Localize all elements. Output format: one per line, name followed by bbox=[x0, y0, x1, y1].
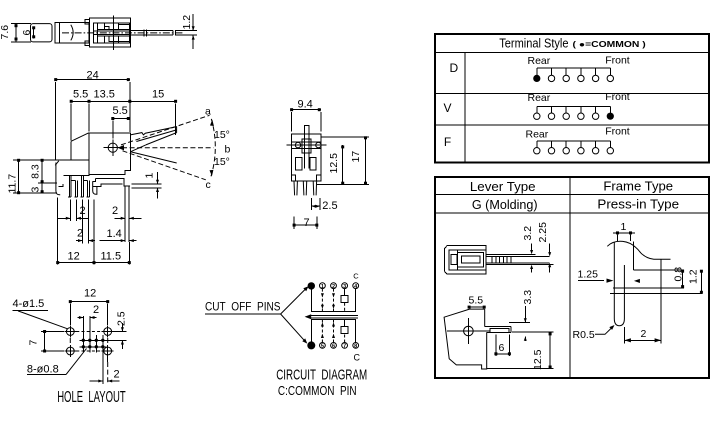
shaft right bbox=[485, 325, 511, 327]
terminal pin 3 bbox=[80, 176, 83, 197]
bottom dim row 3: 12 / 11.5 bbox=[56, 198, 131, 265]
label 8-dia0.8 with leader bbox=[27, 349, 87, 376]
svg-text:7.6: 7.6 bbox=[0, 25, 11, 40]
row separator 1 bbox=[435, 194, 709, 196]
svg-text:a: a bbox=[205, 106, 211, 118]
leader to top cutoff pin bbox=[281, 288, 307, 315]
center blob bbox=[302, 139, 311, 153]
dashed line to b bbox=[122, 147, 214, 149]
pin 6 bbox=[331, 343, 337, 349]
svg-text:V: V bbox=[444, 101, 452, 115]
dimension 8.3 bbox=[30, 159, 58, 183]
body vertical centerline bbox=[112, 15, 114, 50]
dashed travel arc bbox=[211, 119, 216, 177]
front body bbox=[292, 134, 321, 181]
pin 5 bbox=[320, 343, 326, 349]
svg-text:7: 7 bbox=[304, 217, 310, 229]
dimension row 5.5 / 13.5 / 15 bbox=[70, 89, 177, 141]
comb row V bbox=[534, 107, 614, 120]
comb row D bbox=[533, 68, 613, 82]
svg-text:Front: Front bbox=[605, 91, 630, 103]
terminal pin 2 bbox=[74, 180, 77, 196]
switch body (top view) bbox=[89, 18, 130, 47]
dimension 17 bbox=[317, 136, 369, 184]
row separator D/V bbox=[435, 93, 709, 95]
actuator rod (top view) bbox=[131, 30, 174, 32]
bottom dim row 1: 2 / 2 bbox=[58, 200, 141, 222]
svg-text:12.5: 12.5 bbox=[328, 153, 340, 174]
corner hole bottom-right bbox=[102, 345, 114, 362]
svg-text:3: 3 bbox=[30, 187, 42, 193]
svg-text:11.7: 11.7 bbox=[7, 174, 19, 194]
svg-text:17: 17 bbox=[350, 151, 362, 163]
body left tabs bbox=[85, 20, 89, 24]
corner hole bottom-left bbox=[64, 345, 76, 357]
svg-text:2: 2 bbox=[93, 304, 99, 316]
svg-text:12: 12 bbox=[84, 288, 96, 300]
svg-text:2: 2 bbox=[112, 205, 118, 217]
svg-text:8-ø0.8: 8-ø0.8 bbox=[27, 364, 59, 376]
svg-text:c: c bbox=[206, 179, 211, 191]
svg-text:15°: 15° bbox=[214, 156, 230, 168]
pin 2 bbox=[331, 283, 337, 289]
svg-text:Front: Front bbox=[605, 55, 630, 67]
dimension 2.25 bbox=[537, 222, 551, 273]
svg-text:5.5: 5.5 bbox=[469, 295, 484, 307]
svg-text:12: 12 bbox=[68, 251, 80, 263]
dimension 9.4 bbox=[290, 99, 321, 132]
crosshair pivot bbox=[464, 326, 474, 336]
svg-text:5.5: 5.5 bbox=[113, 105, 128, 117]
pin 1 bbox=[320, 283, 326, 289]
inner band bbox=[292, 141, 321, 143]
pin right bbox=[313, 181, 316, 195]
svg-text:C: C bbox=[354, 353, 361, 363]
svg-text:11.5: 11.5 bbox=[101, 251, 122, 263]
body inner detail bbox=[96, 23, 98, 43]
body bottom plate bbox=[93, 179, 131, 187]
pin 3 bbox=[342, 283, 348, 289]
pivot circle bbox=[108, 143, 117, 152]
dashed line to c bbox=[123, 151, 206, 180]
row separator V/F bbox=[435, 124, 709, 126]
svg-text:1: 1 bbox=[621, 221, 627, 233]
vertical from wave end bbox=[660, 259, 662, 343]
svg-text:D: D bbox=[450, 61, 459, 75]
pin 4 bbox=[353, 283, 359, 289]
svg-text:4-ø1.5: 4-ø1.5 bbox=[13, 298, 45, 310]
front long pin bbox=[125, 186, 129, 242]
terminal pin 4 bbox=[87, 180, 90, 196]
dimension 12.5 bbox=[328, 145, 344, 185]
svg-text:C: C bbox=[353, 271, 359, 280]
lever lower travel line bbox=[131, 152, 177, 163]
svg-text:1.25: 1.25 bbox=[578, 269, 599, 281]
corner hole top-left bbox=[64, 326, 76, 338]
svg-text:b: b bbox=[225, 144, 231, 156]
lever arc detail bbox=[71, 25, 73, 41]
svg-text:2.25: 2.25 bbox=[537, 222, 549, 243]
svg-text:G (Molding): G (Molding) bbox=[472, 198, 538, 212]
dimension 3 bbox=[30, 183, 44, 193]
dashed contact line 1 bbox=[321, 289, 323, 312]
contact 3 with switch box bbox=[344, 289, 346, 296]
svg-text:1.2: 1.2 bbox=[688, 269, 700, 284]
feet steps bbox=[292, 175, 321, 181]
left terminal support bbox=[56, 163, 60, 195]
dimension 7 (left) bbox=[28, 330, 65, 353]
pin 7 bbox=[342, 343, 348, 349]
dimension 6 bbox=[21, 26, 35, 38]
dimension 2 (bottom right) bbox=[90, 369, 120, 383]
dimension 7 (front) bbox=[293, 217, 319, 230]
dimension 1.25 bbox=[578, 269, 640, 284]
row separator 2 bbox=[435, 212, 709, 214]
bottom rail bbox=[311, 320, 355, 343]
svg-text:F: F bbox=[444, 135, 451, 149]
corner hole top-right bbox=[102, 326, 114, 338]
shaft outer lines bbox=[486, 253, 535, 255]
lever body outline bbox=[444, 309, 487, 369]
left wing slant bbox=[71, 133, 89, 142]
dimension 2.5 (front) bbox=[312, 198, 338, 212]
plate top bbox=[633, 269, 684, 271]
svg-text:R0.5: R0.5 bbox=[573, 329, 595, 341]
post center line bbox=[623, 327, 625, 344]
dashed contact line 5 bbox=[321, 320, 323, 343]
dimension 12.5 (lever) bbox=[487, 332, 553, 370]
svg-text:3.2: 3.2 bbox=[522, 226, 534, 241]
lever wide section (top view) bbox=[55, 22, 89, 43]
svg-text:6: 6 bbox=[332, 344, 335, 350]
post right edge bbox=[632, 241, 634, 270]
svg-text:Press-in Type: Press-in Type bbox=[597, 198, 679, 212]
svg-text:8.3: 8.3 bbox=[30, 164, 42, 179]
svg-text:7: 7 bbox=[28, 340, 40, 346]
segmented section bbox=[492, 256, 511, 263]
svg-text:5: 5 bbox=[321, 344, 324, 350]
body inner rectangle bbox=[93, 23, 129, 43]
dimension 12 (hole layout) bbox=[69, 288, 109, 326]
plate bottom 1.2 bbox=[610, 293, 702, 295]
arc arrow down bbox=[210, 170, 214, 176]
contact 7 with switch box bbox=[344, 333, 346, 342]
svg-text:CIRCUIT DIAGRAM: CIRCUIT DIAGRAM bbox=[276, 368, 367, 384]
comb row F bbox=[534, 141, 614, 154]
R0.5 label with leader bbox=[573, 325, 615, 341]
svg-text:6: 6 bbox=[499, 342, 505, 354]
svg-text:5.5: 5.5 bbox=[73, 89, 88, 101]
dimension 24 bbox=[54, 70, 130, 161]
right support bracket bbox=[93, 181, 97, 194]
svg-text:Terminal Style: Terminal Style bbox=[499, 37, 568, 51]
horizontal centerline bbox=[286, 144, 326, 146]
svg-text:Front: Front bbox=[605, 126, 630, 138]
table 2 outer border bbox=[435, 177, 709, 378]
svg-text:2.5: 2.5 bbox=[322, 200, 337, 212]
svg-text:CUT OFF PINS: CUT OFF PINS bbox=[205, 300, 281, 314]
terminal pin 1 bbox=[68, 176, 71, 197]
lever inner vertical line bbox=[58, 22, 60, 43]
svg-text:HOLE LAYOUT: HOLE LAYOUT bbox=[57, 389, 126, 406]
terminal comb top bbox=[64, 175, 90, 177]
svg-text:Rear: Rear bbox=[528, 55, 551, 67]
dimension 0.8 bbox=[673, 267, 685, 288]
molding inner lines bbox=[449, 250, 486, 270]
dimension 2 (frame) bbox=[624, 328, 661, 342]
molding outer bbox=[445, 246, 486, 274]
left wing bbox=[53, 133, 89, 160]
header separator bbox=[435, 52, 709, 54]
column separator bbox=[464, 53, 466, 163]
dashed contact line 2 bbox=[333, 289, 335, 312]
svg-text:Frame Type: Frame Type bbox=[603, 180, 673, 194]
dimension 2.5 (right) bbox=[107, 311, 128, 349]
svg-text:( ●=COMMON ): ( ●=COMMON ) bbox=[573, 40, 647, 49]
small holes grid (8 x dia0.8) bbox=[80, 316, 107, 384]
svg-text:12.5: 12.5 bbox=[532, 349, 544, 370]
lower inner rects bbox=[296, 158, 302, 171]
svg-text:C:COMMON PIN: C:COMMON PIN bbox=[278, 383, 357, 398]
dashed line to a bbox=[121, 115, 210, 145]
svg-text:15: 15 bbox=[152, 89, 164, 101]
svg-text:Rear: Rear bbox=[526, 129, 549, 141]
svg-text:9.4: 9.4 bbox=[298, 99, 313, 111]
post left edge with round bottom bbox=[614, 242, 624, 326]
svg-text:2: 2 bbox=[641, 328, 647, 340]
bottom dim row 2: 2 / 1.4 bbox=[76, 200, 137, 244]
bottom cut-off pin (filled) bbox=[307, 341, 315, 349]
svg-text:2: 2 bbox=[114, 369, 120, 381]
lever (up position) bbox=[131, 127, 177, 135]
dimension 3.2 bbox=[522, 226, 534, 273]
svg-text:3.3: 3.3 bbox=[522, 290, 534, 305]
dimension 11.7 bbox=[7, 159, 58, 194]
shaft inner lines bbox=[486, 255, 550, 257]
top rail bbox=[311, 289, 355, 312]
svg-text:7: 7 bbox=[343, 344, 346, 350]
knob on top bbox=[304, 126, 308, 135]
dashed contact line 6 bbox=[333, 320, 335, 343]
dashed centerlines verticals bbox=[69, 338, 71, 345]
dimension 5.5 (pivot to edge) bbox=[111, 105, 130, 139]
label 4-dia1.5 with leader bbox=[13, 298, 68, 329]
wing bend mark bbox=[55, 161, 59, 166]
column separator bbox=[569, 177, 571, 378]
svg-text:15°: 15° bbox=[214, 129, 230, 141]
plate bottom 0.8 bbox=[613, 287, 684, 289]
side circles bbox=[295, 142, 300, 147]
lever narrow section (top view) bbox=[31, 24, 53, 42]
pin left bbox=[294, 181, 297, 195]
svg-text:2.5: 2.5 bbox=[116, 311, 128, 326]
dimension 3.3 bbox=[509, 290, 534, 341]
svg-text:6: 6 bbox=[21, 30, 33, 36]
dimension 1.2 bbox=[175, 14, 197, 49]
leader to bottom cutoff pin bbox=[281, 314, 306, 342]
svg-text:1: 1 bbox=[144, 173, 156, 179]
arc arrow up bbox=[210, 120, 214, 127]
common slider bus bbox=[311, 315, 359, 317]
center shaft bbox=[303, 134, 305, 168]
svg-text:Lever Type: Lever Type bbox=[470, 180, 536, 194]
svg-text:13.5: 13.5 bbox=[94, 89, 115, 101]
rod dashed centerline bbox=[62, 32, 183, 34]
body outline (side view) bbox=[89, 133, 131, 175]
svg-text:8: 8 bbox=[354, 344, 357, 350]
pivot arrow marker bbox=[118, 145, 125, 150]
pin middle bbox=[303, 181, 306, 195]
break wave bbox=[607, 241, 670, 259]
pin 8 bbox=[353, 343, 359, 349]
leader underline bbox=[205, 313, 281, 315]
table 1 outer border bbox=[435, 34, 709, 163]
dimension 6 bbox=[494, 335, 511, 357]
dimension 5.5 (lever) bbox=[468, 295, 486, 309]
top cut-off pin (filled) bbox=[308, 282, 315, 289]
dimension 1 (frame) bbox=[613, 221, 635, 241]
svg-text:1.2: 1.2 bbox=[181, 15, 193, 30]
svg-text:1.4: 1.4 bbox=[107, 228, 122, 240]
dimension 1 (right side) bbox=[132, 172, 162, 199]
dimension 2 (top, hole pitch) bbox=[78, 304, 100, 319]
dimension 1.2 bbox=[688, 269, 703, 294]
svg-text:Rear: Rear bbox=[528, 92, 551, 104]
dimension 7.6 bbox=[0, 24, 31, 42]
